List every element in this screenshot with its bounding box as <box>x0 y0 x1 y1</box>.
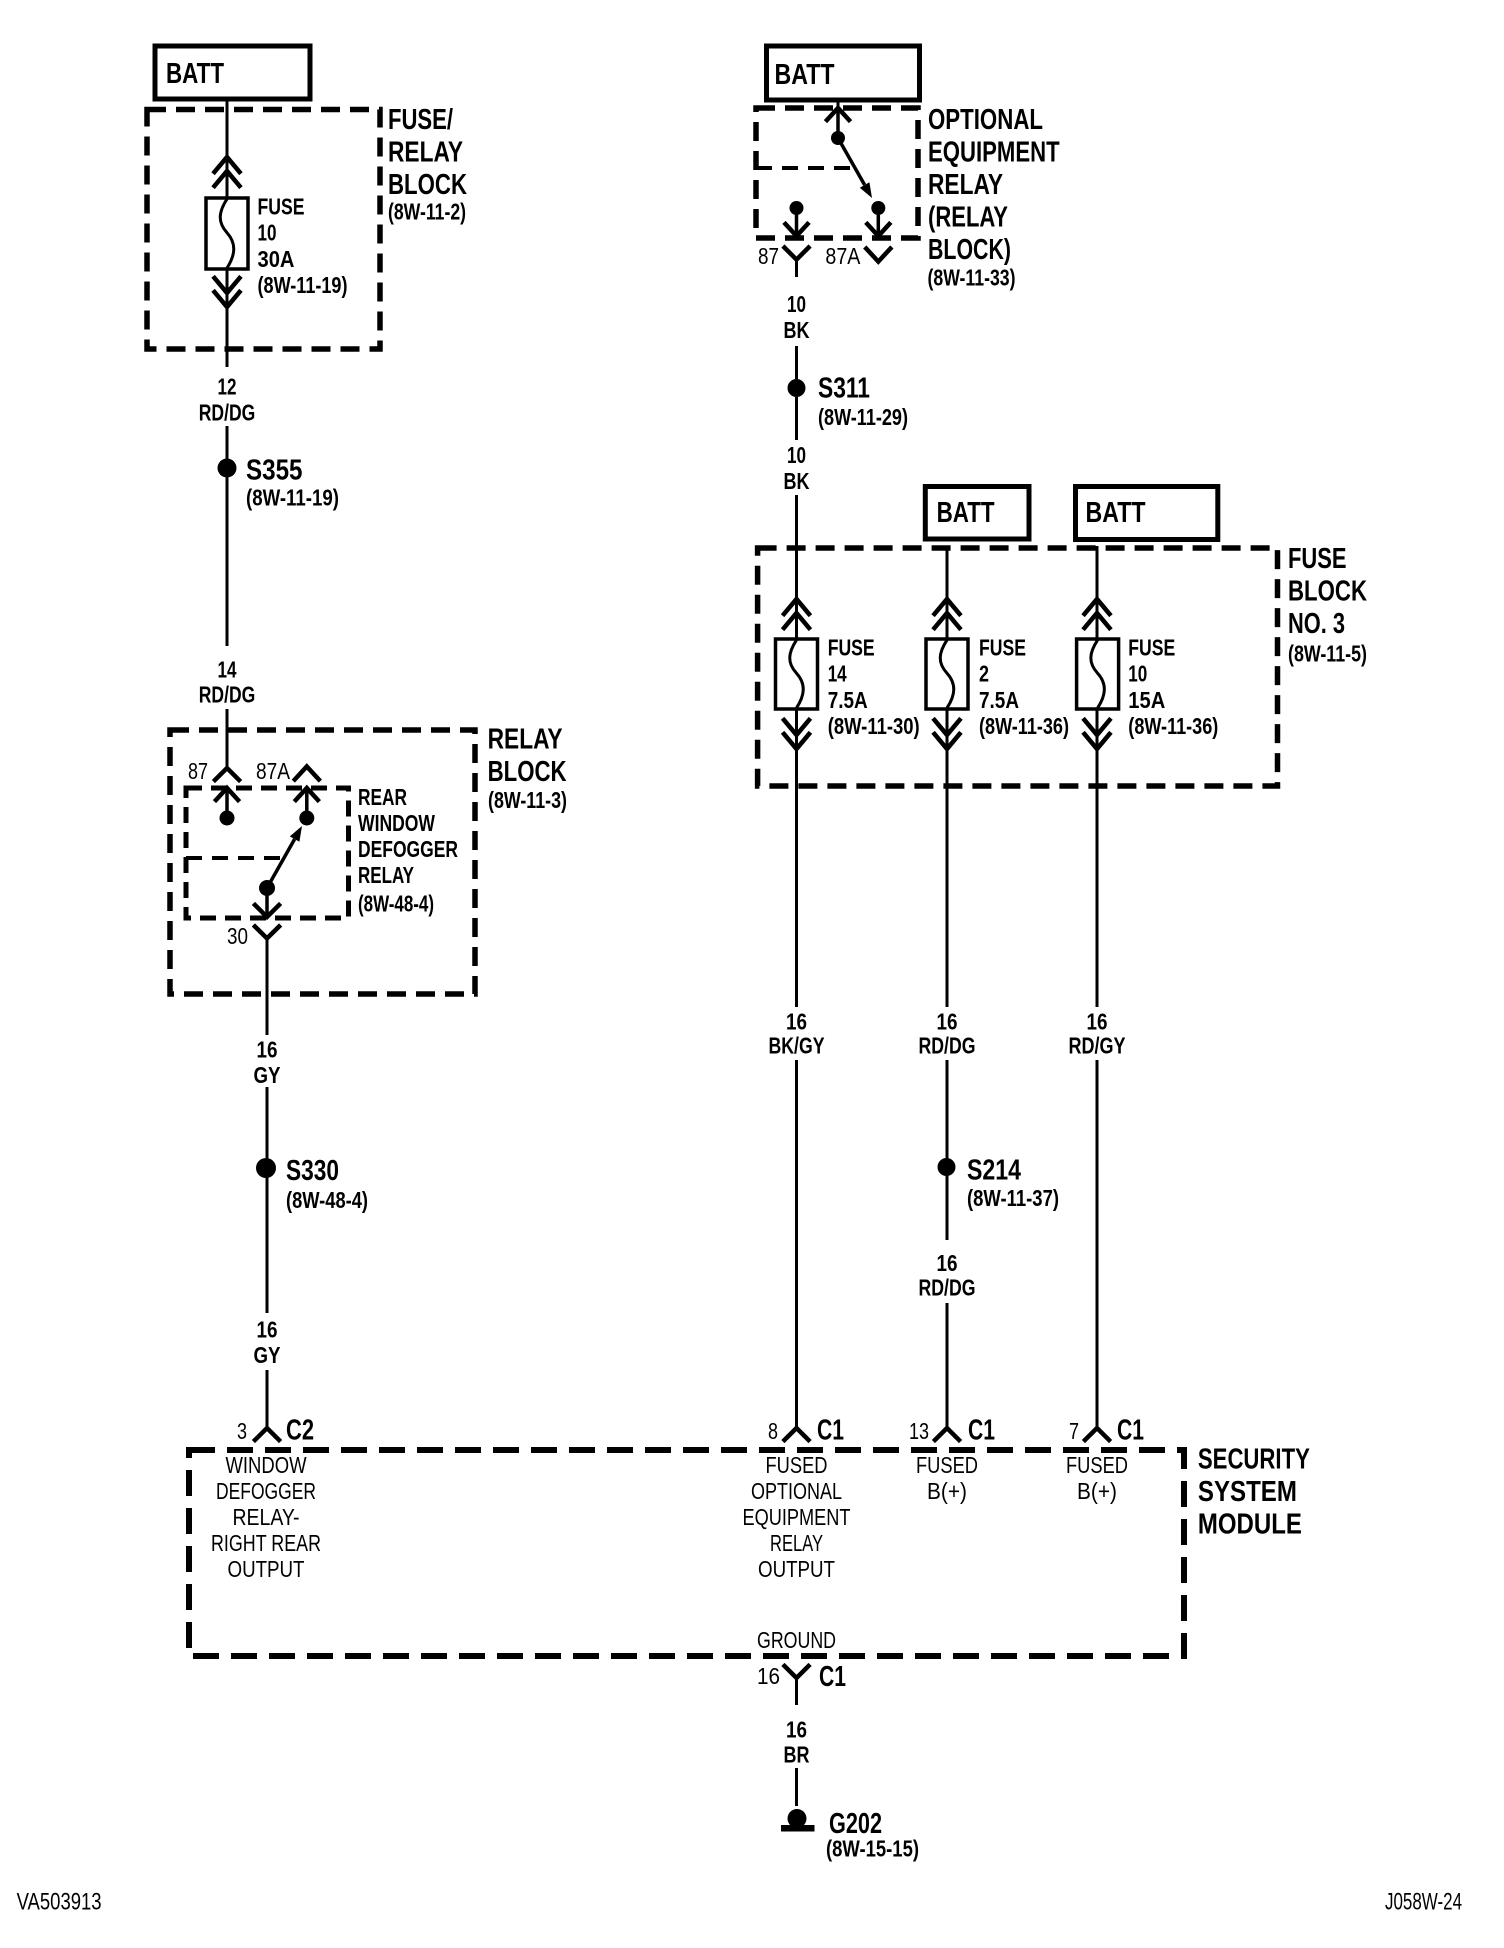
svg-text:MODULE: MODULE <box>1198 1508 1302 1540</box>
svg-text:GROUND: GROUND <box>757 1627 836 1653</box>
svg-text:DEFOGGER: DEFOGGER <box>216 1478 316 1504</box>
svg-text:GY: GY <box>254 1342 281 1368</box>
svg-text:J058W-24: J058W-24 <box>1385 1888 1462 1915</box>
svg-text:(8W-11-19): (8W-11-19) <box>246 485 339 511</box>
svg-text:BATT: BATT <box>166 58 224 90</box>
svg-text:15A: 15A <box>1128 687 1165 713</box>
wire - to splice S311 <box>795 346 798 379</box>
svg-text:GY: GY <box>254 1062 281 1088</box>
wire - fuse 10 to splice S355 <box>226 269 229 367</box>
svg-text:87A: 87A <box>825 243 861 269</box>
svg-text:RELAY-: RELAY- <box>233 1504 300 1530</box>
svg-text:10: 10 <box>787 442 806 468</box>
svg-text:16: 16 <box>257 1037 278 1063</box>
svg-text:(8W-11-30): (8W-11-30) <box>828 713 920 739</box>
svg-text:BLOCK: BLOCK <box>388 169 467 201</box>
svg-text:BLOCK: BLOCK <box>488 756 567 788</box>
svg-text:(8W-15-15): (8W-15-15) <box>826 1836 919 1862</box>
wire - S330 to module pin 3 <box>266 1370 269 1428</box>
svg-text:FUSE: FUSE <box>258 193 305 219</box>
relay terminal 87A (arrow and dot) <box>299 811 314 826</box>
wire - to ground G202 <box>795 1768 798 1806</box>
svg-text:10: 10 <box>787 291 806 317</box>
splice S355 <box>218 459 237 478</box>
fuse 10 30A <box>206 198 248 269</box>
svg-text:DEFOGGER: DEFOGGER <box>358 836 458 862</box>
svg-text:87: 87 <box>188 758 208 784</box>
relay coil divider (optional relay) <box>756 166 852 170</box>
svg-text:NO. 3: NO. 3 <box>1288 608 1345 640</box>
svg-text:30A: 30A <box>258 246 295 272</box>
module pin 3 connector fork <box>255 1428 279 1440</box>
battery feed box BATT (fuse 2) <box>925 487 1029 540</box>
connector arrow - feed into fuse 2 <box>935 599 960 628</box>
svg-text:RIGHT REAR: RIGHT REAR <box>211 1530 321 1556</box>
svg-text:OPTIONAL: OPTIONAL <box>928 104 1043 136</box>
svg-text:RELAY: RELAY <box>488 724 563 756</box>
svg-text:RELAY: RELAY <box>928 169 1003 201</box>
svg-text:FUSE: FUSE <box>979 634 1026 660</box>
svg-text:BATT: BATT <box>775 59 835 91</box>
svg-text:SECURITY: SECURITY <box>1198 1443 1310 1475</box>
svg-text:BR: BR <box>784 1742 810 1768</box>
wire - to relay block pin 87 <box>226 709 229 768</box>
svg-text:FUSED: FUSED <box>766 1452 828 1478</box>
svg-text:FUSED: FUSED <box>916 1452 978 1478</box>
wire - label to S355 <box>226 426 229 646</box>
connector arrow - feed into fuse 14 <box>784 599 809 628</box>
svg-text:EQUIPMENT: EQUIPMENT <box>743 1504 851 1530</box>
svg-text:S355: S355 <box>246 455 303 487</box>
relay terminal 87 (dot and arrow) <box>790 201 804 215</box>
svg-text:WINDOW: WINDOW <box>358 810 435 836</box>
pin 87A chevron (optional relay) <box>866 249 890 262</box>
relay switch arm (30 to 87A) <box>267 839 295 888</box>
svg-text:10: 10 <box>1128 661 1147 687</box>
svg-text:(8W-11-29): (8W-11-29) <box>818 404 908 430</box>
wire - S214 to module pin 13 <box>946 1303 949 1428</box>
svg-text:C1: C1 <box>968 1415 995 1447</box>
svg-text:(RELAY: (RELAY <box>928 201 1008 233</box>
wire - S311 to fuse block <box>795 495 798 640</box>
svg-text:RD/GY: RD/GY <box>1069 1033 1126 1059</box>
svg-text:C1: C1 <box>819 1661 846 1693</box>
splice S214 <box>938 1158 956 1176</box>
svg-text:S311: S311 <box>818 372 870 404</box>
svg-text:16: 16 <box>786 1009 807 1035</box>
battery feed box BATT (fuse 10 fuse block 3) <box>1076 487 1218 540</box>
svg-text:BK/GY: BK/GY <box>769 1033 825 1059</box>
svg-text:(8W-11-33): (8W-11-33) <box>928 265 1016 291</box>
svg-text:12: 12 <box>218 374 237 400</box>
svg-text:S330: S330 <box>286 1155 339 1187</box>
battery feed box BATT (optional equipment relay) <box>767 46 920 100</box>
svg-text:RELAY: RELAY <box>770 1530 823 1556</box>
svg-text:87A: 87A <box>256 758 291 784</box>
svg-text:16: 16 <box>937 1250 958 1276</box>
svg-text:BATT: BATT <box>1086 497 1146 529</box>
svg-text:B(+): B(+) <box>927 1478 967 1504</box>
svg-text:2: 2 <box>979 661 989 687</box>
connector arrow - fuse 10 output <box>215 278 240 307</box>
svg-text:BLOCK: BLOCK <box>1288 576 1367 608</box>
pin 87 connector fork (optional relay) <box>785 248 809 260</box>
svg-text:RD/DG: RD/DG <box>919 1033 976 1059</box>
svg-text:RD/DG: RD/DG <box>199 399 256 425</box>
wire - fuse 14 to module pin 8 <box>795 709 798 1007</box>
fuse 10 15A <box>1077 639 1119 709</box>
svg-text:(8W-11-37): (8W-11-37) <box>967 1185 1059 1211</box>
connector arrow - feed into fuse 10 (block 3) <box>1085 599 1110 628</box>
relay block dashed outline <box>170 730 475 994</box>
svg-text:FUSED: FUSED <box>1066 1452 1128 1478</box>
connector arrow - fuse 2 output <box>935 720 960 749</box>
wire - fuse 10 to module pin 7 <box>1096 709 1099 1007</box>
svg-text:(8W-11-2): (8W-11-2) <box>388 199 466 225</box>
svg-text:RELAY: RELAY <box>358 862 414 888</box>
pin 87 connector fork <box>215 768 239 780</box>
wire - to splice S330 <box>266 1087 269 1313</box>
svg-text:BLOCK): BLOCK) <box>928 234 1011 266</box>
relay switch arm (common to 87A) <box>838 138 865 185</box>
rear window defogger relay inner dashed box <box>186 788 349 918</box>
svg-text:(8W-11-3): (8W-11-3) <box>488 787 567 813</box>
svg-text:BK: BK <box>784 317 810 343</box>
svg-text:EQUIPMENT: EQUIPMENT <box>928 136 1060 168</box>
svg-text:8: 8 <box>768 1418 778 1444</box>
svg-text:OUTPUT: OUTPUT <box>758 1556 835 1582</box>
svg-text:7.5A: 7.5A <box>828 687 868 713</box>
svg-text:7.5A: 7.5A <box>979 687 1019 713</box>
svg-text:16: 16 <box>1087 1009 1108 1035</box>
fuse 14 7.5A <box>776 639 818 709</box>
module pin 16 connector fork (ground) <box>785 1666 809 1678</box>
wire - BATT to fuse 2 <box>946 546 949 640</box>
svg-text:RD/DG: RD/DG <box>199 682 256 708</box>
svg-text:VA503913: VA503913 <box>17 1888 102 1915</box>
module pin 8 connector fork <box>785 1428 809 1440</box>
fuse/relay block dashed outline <box>147 110 380 350</box>
splice S330 <box>256 1158 276 1178</box>
svg-text:RD/DG: RD/DG <box>919 1275 976 1301</box>
wire - BATT to fuse 10 <box>226 99 229 199</box>
module pin 13 connector fork <box>935 1428 959 1440</box>
svg-text:16: 16 <box>937 1009 958 1035</box>
relay common terminal (arrow to BATT) <box>831 131 845 145</box>
svg-text:(8W-11-36): (8W-11-36) <box>1128 713 1218 739</box>
pin 87A chevron <box>295 767 319 780</box>
svg-text:(8W-48-4): (8W-48-4) <box>358 891 434 917</box>
connector arrow - fuse 14 output <box>784 720 809 749</box>
svg-text:FUSE: FUSE <box>1128 634 1175 660</box>
svg-text:OPTIONAL: OPTIONAL <box>751 1478 842 1504</box>
svg-text:(8W-11-5): (8W-11-5) <box>1288 641 1367 667</box>
relay terminal 30 (dot and arrow) <box>259 880 275 896</box>
svg-text:BATT: BATT <box>937 497 995 529</box>
battery feed box BATT (fuse/relay block feed) <box>155 46 310 99</box>
fuse 2 7.5A <box>926 639 968 709</box>
pin 30 connector fork <box>255 926 279 938</box>
svg-text:OUTPUT: OUTPUT <box>228 1556 305 1582</box>
splice S311 <box>788 379 806 397</box>
svg-text:3: 3 <box>237 1418 247 1444</box>
svg-text:C2: C2 <box>286 1415 314 1447</box>
connector arrow - feed into fuse 10 <box>215 157 240 186</box>
svg-text:SYSTEM: SYSTEM <box>1198 1476 1297 1508</box>
svg-text:WINDOW: WINDOW <box>226 1452 307 1478</box>
svg-text:14: 14 <box>828 661 847 687</box>
relay terminal 87A (dot and arrow) <box>871 201 885 215</box>
svg-text:16: 16 <box>257 1317 278 1343</box>
svg-text:S214: S214 <box>967 1154 1021 1186</box>
wire - BATT to fuse 10 (block 3) <box>1096 546 1099 640</box>
svg-text:REAR: REAR <box>358 784 407 810</box>
svg-text:C1: C1 <box>817 1415 844 1447</box>
svg-text:C1: C1 <box>1117 1415 1144 1447</box>
wire - to S214 <box>946 1060 949 1240</box>
svg-text:13: 13 <box>909 1418 929 1444</box>
svg-text:16: 16 <box>757 1663 780 1689</box>
svg-text:FUSE: FUSE <box>828 634 875 660</box>
svg-text:(8W-11-36): (8W-11-36) <box>979 713 1069 739</box>
svg-text:14: 14 <box>218 657 237 683</box>
wire - to module pin 8 <box>795 1060 798 1428</box>
svg-text:10: 10 <box>258 220 277 246</box>
wire - BATT into relay <box>837 100 840 110</box>
svg-text:RELAY: RELAY <box>388 136 463 168</box>
svg-text:B(+): B(+) <box>1077 1478 1117 1504</box>
svg-text:7: 7 <box>1069 1418 1079 1444</box>
ground G202 symbol <box>788 1809 807 1828</box>
svg-text:FUSE: FUSE <box>1288 543 1347 575</box>
module pin 7 connector fork <box>1085 1428 1109 1440</box>
svg-text:16: 16 <box>786 1717 807 1743</box>
relay terminal 87 (arrow and dot) <box>220 811 235 826</box>
wire - fuse 2 to splice S214 <box>946 709 949 1007</box>
optional equipment relay dashed box <box>756 108 918 238</box>
svg-text:BK: BK <box>784 468 810 494</box>
svg-text:(8W-48-4): (8W-48-4) <box>286 1187 368 1213</box>
wire - to module pin 7 <box>1096 1060 1099 1428</box>
svg-text:87: 87 <box>758 243 779 269</box>
svg-text:30: 30 <box>227 923 248 949</box>
relay coil divider <box>186 856 290 860</box>
fuse block no 3 dashed outline <box>758 548 1278 786</box>
connector arrow - fuse 10 output (block 3) <box>1085 720 1110 749</box>
security system module dashed outline <box>189 1450 1184 1656</box>
svg-text:(8W-11-19): (8W-11-19) <box>258 272 348 298</box>
svg-text:FUSE/: FUSE/ <box>388 104 453 136</box>
